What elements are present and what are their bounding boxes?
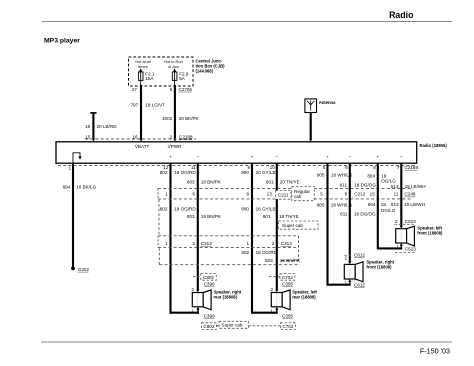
wire 694 16 BK/LG [63, 163, 97, 267]
inline connector pins 1 6 9 13 [165, 192, 272, 197]
svg-text:18: 18 [381, 202, 387, 207]
harness dashed boundary right of C313 [281, 236, 299, 261]
wire 813 18 LB/WH (radio pin 7) [391, 163, 426, 226]
connector C612 top (right front) [344, 252, 365, 264]
CJB label [196, 59, 226, 74]
connector C702 top (left rear) [269, 274, 295, 281]
svg-text:802: 802 [160, 170, 168, 175]
node Hot at all times [135, 59, 150, 69]
connector C395 top [282, 282, 293, 287]
svg-text:C702: C702 [282, 275, 293, 280]
pin 2 [170, 135, 173, 140]
connector row left bracket [157, 236, 159, 248]
connector C396 bottom [204, 314, 215, 319]
svg-text:+: + [376, 154, 379, 159]
node VPWR [168, 144, 182, 149]
svg-text:Super cab: Super cab [222, 323, 243, 328]
svg-text:–: – [349, 154, 352, 159]
svg-text:19: 19 [85, 124, 91, 129]
svg-text:C2188: C2188 [405, 165, 419, 170]
svg-text:Radio (18806): Radio (18806) [420, 143, 448, 148]
connector C802 bottom [201, 323, 216, 330]
svg-text:1: 1 [165, 192, 168, 197]
svg-text:18 OG/RD: 18 OG/RD [256, 250, 278, 255]
svg-text:15A: 15A [145, 76, 154, 81]
connector C802 top (right rear) [193, 274, 216, 281]
svg-text:C395: C395 [282, 282, 293, 287]
svg-text:C396: C396 [204, 314, 215, 319]
dashed connector line below radio [58, 164, 416, 166]
svg-text:15: 15 [370, 192, 376, 197]
connector C312 [165, 241, 212, 246]
svg-text:6: 6 [192, 192, 195, 197]
left harness dashed link [158, 200, 160, 236]
svg-text:20 BK/PK: 20 BK/PK [179, 116, 200, 121]
inline connector row: left bracket [157, 189, 159, 199]
wire 800 18 GY/LB (mid section) [241, 207, 275, 212]
note Regular cab [292, 187, 315, 201]
antenna [305, 99, 336, 113]
svg-text:7: 7 [397, 165, 400, 170]
svg-text:18 GY/LB: 18 GY/LB [256, 207, 276, 212]
svg-text:802: 802 [160, 207, 168, 212]
svg-text:F-150 '03: F-150 '03 [420, 347, 450, 356]
svg-text:18 BN/PK: 18 BN/PK [280, 258, 301, 263]
speaker left rear (18808) [271, 289, 317, 309]
svg-text:1: 1 [68, 166, 71, 171]
svg-text:16 BK/LG: 16 BK/LG [76, 184, 96, 189]
wire 802 18 OG/RD (super cab section) [241, 250, 277, 255]
connector C396 top [204, 282, 215, 287]
pin 2 left rear speaker [270, 287, 278, 293]
svg-text:18: 18 [381, 173, 387, 178]
svg-text:18 BN/PK: 18 BN/PK [201, 180, 222, 185]
wire return left front [378, 243, 403, 249]
svg-text:Super cab: Super cab [282, 223, 303, 228]
svg-text:C612: C612 [354, 252, 365, 257]
svg-text:802: 802 [241, 250, 249, 255]
svg-text:C270b: C270b [179, 87, 193, 92]
svg-text:805: 805 [317, 173, 325, 178]
svg-text:20 TN/YE: 20 TN/YE [280, 180, 300, 185]
connector C395 bottom [282, 314, 293, 319]
svg-text:C523: C523 [405, 247, 416, 252]
svg-text:18 OG/RD: 18 OG/RD [174, 207, 196, 212]
footer label F-150 '03 [420, 347, 450, 356]
note Super cab bottom [216, 321, 280, 328]
svg-text:5: 5 [320, 192, 323, 197]
svg-text:1: 1 [396, 244, 399, 249]
svg-text:G202: G202 [78, 267, 90, 272]
svg-text:C395: C395 [282, 314, 293, 319]
wire 802 18 OG/RD (radio pin 12 to C312) [160, 163, 197, 314]
wire 800 20 GY/LB (radio pin 9) [241, 163, 275, 314]
svg-text:times: times [138, 64, 147, 69]
wire 811 18 DG/OG (radio pin 6) [340, 163, 377, 262]
radio internal ground link [73, 153, 82, 163]
title Radio [389, 10, 414, 20]
inline connector pins 5 8 C212 15 11 C248 [320, 192, 416, 197]
svg-text:2: 2 [395, 219, 398, 224]
svg-text:803: 803 [187, 180, 195, 185]
svg-text:MP3 player: MP3 player [44, 38, 80, 45]
svg-text:–: – [197, 154, 200, 159]
dashed connector line above radio [85, 138, 196, 140]
svg-text:811: 811 [340, 212, 348, 217]
svg-text:or Acc: or Acc [168, 64, 179, 69]
svg-text:VBATT: VBATT [135, 144, 150, 149]
note Super cab [278, 221, 318, 229]
svg-text:+: + [251, 154, 254, 159]
svg-text:VPWR: VPWR [168, 144, 182, 149]
wire 803 18 BN/PK (super cab section) [265, 258, 301, 263]
svg-text:1: 1 [191, 309, 194, 314]
connector C2188 bottom [405, 165, 419, 170]
speaker right front (18808) [344, 259, 394, 281]
wire 811 18 DG/OG (below C212) [340, 212, 376, 217]
svg-text:2: 2 [344, 255, 347, 260]
svg-text:–: – [400, 154, 403, 159]
pin labels below radio [68, 165, 399, 171]
svg-text:(14A068): (14A068) [196, 69, 214, 74]
connector C313 [247, 241, 293, 246]
svg-text:C211: C211 [278, 193, 289, 198]
radio label [420, 143, 448, 148]
svg-text:18 WH/LG: 18 WH/LG [331, 203, 353, 208]
svg-text:18 LB/WH: 18 LB/WH [405, 184, 426, 189]
svg-text:Antenna: Antenna [319, 100, 336, 105]
svg-text:+: + [169, 154, 172, 159]
svg-text:1: 1 [247, 241, 250, 246]
svg-text:1002: 1002 [162, 116, 173, 121]
radio box (18806) [56, 142, 417, 163]
connector C612 bottom [354, 282, 365, 287]
svg-text:5: 5 [323, 165, 326, 170]
svg-text:20 LB/RD: 20 LB/RD [97, 124, 118, 129]
svg-text:2: 2 [270, 287, 273, 292]
svg-text:C212: C212 [354, 192, 365, 197]
wire 802 18 OG/RD (mid section) [160, 207, 197, 212]
inline connector row: lower dashed line [158, 198, 411, 200]
svg-text:1: 1 [165, 241, 168, 246]
speaker left front (18808) [396, 225, 443, 246]
svg-text:803: 803 [265, 258, 273, 263]
svg-text:20 GY/LB: 20 GY/LB [256, 170, 276, 175]
wire 797 18 LG/VT [131, 85, 166, 142]
node VBATT [135, 144, 150, 149]
node Hot in Run or Acc [164, 59, 182, 69]
svg-text:rear (18808): rear (18808) [214, 294, 238, 299]
connector C523 top (left front) [395, 219, 417, 229]
subtitle MP3 player [44, 38, 80, 45]
connector C270b [179, 87, 193, 92]
svg-text:801: 801 [263, 214, 271, 219]
svg-text:C248: C248 [405, 192, 416, 197]
footer rule [41, 341, 452, 343]
pin 8 [170, 87, 173, 92]
svg-text:OG/LG: OG/LG [381, 208, 396, 213]
header rule [42, 21, 452, 23]
svg-text:800: 800 [241, 207, 249, 212]
svg-text:front (18808): front (18808) [366, 265, 392, 270]
connector C702 bottom [280, 323, 295, 330]
ground G202 [71, 267, 89, 273]
wire 803 18 BN/PK (mid section) [187, 214, 222, 219]
Central Junction Box (CJB) dashed enclosure [129, 57, 194, 86]
svg-text:C312: C312 [201, 241, 212, 246]
svg-text:2: 2 [191, 287, 194, 292]
svg-text:C523: C523 [405, 219, 416, 224]
svg-text:18 OG/RD: 18 OG/RD [174, 170, 196, 175]
fuse F2.9 5A [172, 68, 189, 85]
harness dashed boundary bottom left [159, 248, 300, 265]
svg-text:13: 13 [267, 192, 273, 197]
svg-text:2: 2 [272, 241, 275, 246]
svg-text:800: 800 [241, 170, 249, 175]
svg-text:18 LG/VT: 18 LG/VT [145, 103, 165, 108]
wire 801 20 TN/YE (radio pin 10) [266, 163, 300, 290]
connector C211 [276, 191, 292, 200]
svg-text:18 LB/WH: 18 LB/WH [404, 202, 425, 207]
svg-text:694: 694 [63, 184, 71, 189]
svg-text:1: 1 [345, 280, 348, 285]
wire return right rear [171, 307, 200, 314]
svg-text:8: 8 [373, 165, 376, 170]
wire 805 18 WH/LG (radio pin 5) [317, 163, 353, 286]
wire 804 18 OG/LG (radio pin 8) [367, 163, 396, 249]
svg-text:18 BN/PK: 18 BN/PK [201, 214, 222, 219]
svg-text:811: 811 [340, 182, 348, 187]
svg-text:2: 2 [192, 241, 195, 246]
svg-text:cab: cab [294, 194, 302, 199]
svg-text:801: 801 [266, 180, 274, 185]
svg-text:9: 9 [247, 192, 250, 197]
svg-text:18 TN/YE: 18 TN/YE [279, 214, 299, 219]
svg-text:11: 11 [394, 192, 399, 197]
connector C523 bottom [395, 247, 416, 253]
svg-text:C802: C802 [203, 275, 214, 280]
svg-text:6: 6 [345, 165, 348, 170]
svg-text:18 DG/OG: 18 DG/OG [354, 212, 376, 217]
pin 15 [85, 135, 91, 140]
svg-text:+: + [326, 154, 329, 159]
svg-text:805: 805 [317, 203, 325, 208]
svg-text:–: – [276, 154, 279, 159]
svg-text:18 DG/OG: 18 DG/OG [354, 182, 376, 187]
connector row C312 C313 upper dashed line [158, 235, 299, 237]
connector row C312 C313 lower dashed line [158, 247, 299, 249]
antenna wire [309, 113, 312, 142]
svg-text:803: 803 [187, 214, 195, 219]
svg-text:5A: 5A [179, 76, 186, 81]
connector C2188 top [179, 135, 193, 140]
wire 19 20 LB/RD [85, 113, 117, 142]
svg-text:C612: C612 [354, 282, 365, 287]
svg-text:804: 804 [367, 173, 375, 178]
wire 803 18 BN/PK (radio pin 11) [187, 163, 222, 290]
svg-text:27: 27 [132, 87, 138, 92]
svg-text:8: 8 [170, 87, 173, 92]
pin 27 [132, 87, 138, 92]
svg-text:1: 1 [270, 309, 273, 314]
wire 813 18 LB/WH (below C248) [391, 202, 425, 207]
svg-text:C396: C396 [204, 282, 215, 287]
fuse F2.1 15A [138, 68, 155, 85]
svg-text:front (18808): front (18808) [417, 231, 443, 236]
inline connector row: upper dashed line [158, 188, 411, 190]
speaker right rear (18808) [192, 289, 242, 309]
polarity marks [169, 154, 403, 160]
wire 1002 20 BK/PK [162, 85, 200, 142]
pin 2 right rear speaker [191, 287, 199, 293]
svg-text:804: 804 [368, 202, 376, 207]
pin 16 [132, 135, 138, 140]
svg-text:Radio: Radio [389, 10, 414, 20]
svg-text:C313: C313 [281, 241, 292, 246]
svg-text:C702: C702 [282, 324, 293, 329]
svg-text:rear (18808): rear (18808) [292, 294, 316, 299]
svg-text:797: 797 [131, 103, 139, 108]
svg-text:C802: C802 [203, 324, 214, 329]
wire 805 18 WH/LG (below C212) [317, 203, 353, 208]
wire return right front [328, 279, 352, 286]
wire 801 18 TN/YE (mid section) [263, 214, 299, 219]
wire 804 18 OG/LG (below C248) [368, 202, 396, 213]
svg-text:813: 813 [391, 184, 399, 189]
svg-text:8: 8 [345, 192, 348, 197]
wire return left rear [252, 307, 278, 314]
svg-text:813: 813 [391, 202, 399, 207]
